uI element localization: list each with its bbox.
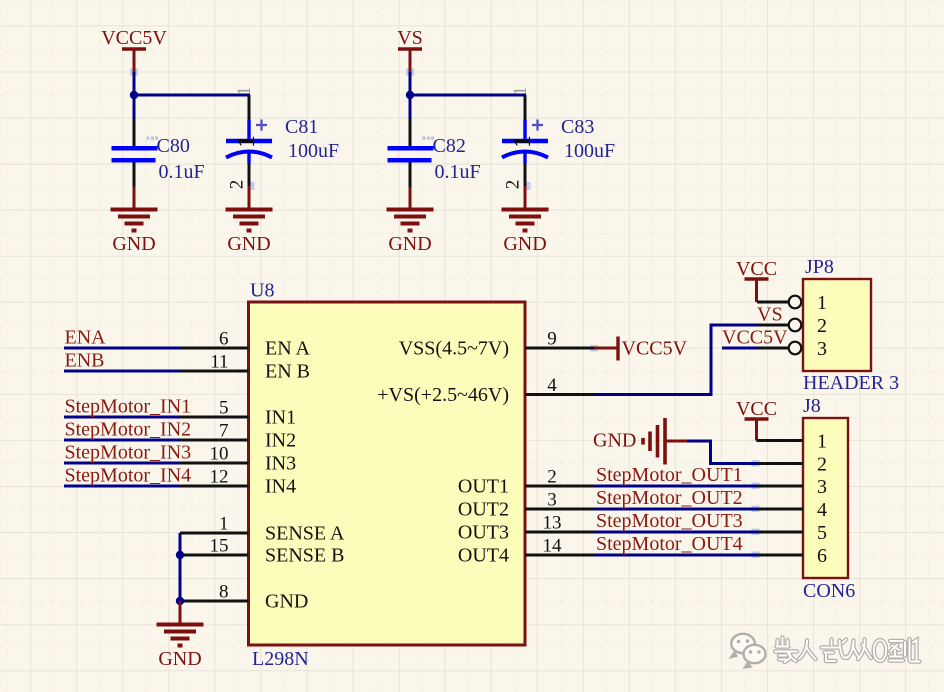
svg-text:14: 14: [543, 536, 563, 557]
pin 2 (JP8): [757, 315, 827, 337]
pin 6 EN A (U8 left): [180, 329, 311, 360]
capacitor C83 (polarized): [502, 95, 615, 189]
svg-text:11: 11: [210, 352, 228, 373]
svg-text:1: 1: [219, 514, 229, 535]
power port VS (top): [397, 27, 423, 72]
svg-text:15: 15: [210, 536, 229, 557]
capacitor C80: [112, 119, 205, 188]
wire to ground symbol: [179, 601, 182, 625]
svg-text:SENSE B: SENSE B: [265, 545, 344, 567]
svg-text:0.1uF: 0.1uF: [159, 161, 205, 183]
svg-text:IN3: IN3: [265, 453, 296, 475]
capacitor C81 (polarized): [226, 95, 339, 189]
wire SENSE A/B to GND vertical: [179, 533, 182, 601]
svg-text:VS: VS: [397, 27, 423, 49]
svg-text:VCC5V: VCC5V: [722, 327, 788, 349]
svg-text:CON6: CON6: [803, 580, 855, 602]
wire C81 to ground: [248, 186, 251, 210]
svg-text:EN B: EN B: [265, 361, 310, 383]
svg-text:GND: GND: [158, 648, 201, 670]
svg-text:1: 1: [510, 136, 536, 148]
svg-text:2: 2: [817, 454, 827, 476]
svg-text:100uF: 100uF: [288, 140, 339, 162]
svg-text:OUT1: OUT1: [458, 476, 509, 498]
power port VCC (J8): [736, 398, 777, 441]
wire C83 to ground: [524, 186, 527, 210]
wire net StepMotor_OUT1: [595, 485, 758, 488]
wire net StepMotor_OUT2: [595, 508, 758, 511]
pin 2 (J8): [757, 454, 827, 476]
svg-text:IN2: IN2: [265, 430, 296, 452]
watermark wechat logo bubbles: [729, 634, 766, 669]
ground GND (power ground bars): [643, 418, 665, 465]
wire +VS to JP8 pin 2: [595, 325, 759, 395]
svg-text:0.1uF: 0.1uF: [435, 161, 481, 183]
pin 4 (J8): [757, 499, 827, 521]
node compile marks: [130, 69, 760, 559]
svg-text:GND: GND: [112, 233, 155, 255]
svg-text:GND: GND: [388, 233, 431, 255]
ground GND under C81: [226, 210, 273, 231]
svg-text:VCC: VCC: [736, 258, 777, 280]
svg-text:1: 1: [817, 431, 827, 453]
svg-text:VCC: VCC: [736, 398, 777, 420]
pin 3 (JP8): [757, 338, 827, 360]
ground GND (bottom left): [157, 625, 204, 646]
wire VS vertical to junction: [409, 72, 412, 119]
svg-text:4: 4: [547, 375, 557, 396]
svg-text:10: 10: [210, 444, 229, 465]
pin 5 IN1 (U8 left): [180, 398, 296, 429]
pin 7 IN2 (U8 left): [180, 421, 296, 452]
svg-text:3: 3: [547, 490, 557, 511]
svg-text:C80: C80: [157, 135, 190, 157]
pin 5 (J8): [757, 522, 827, 544]
svg-text:U8: U8: [250, 280, 274, 302]
pin 1 (J8): [757, 431, 828, 453]
pin 8 GND (U8 left): [180, 582, 308, 613]
svg-text:5: 5: [817, 522, 827, 544]
svg-text:VCC5V: VCC5V: [101, 27, 167, 49]
svg-text:StepMotor_OUT4: StepMotor_OUT4: [596, 533, 743, 555]
power port VCC5V (pin 9): [595, 337, 688, 361]
svg-text:HEADER 3: HEADER 3: [803, 372, 899, 394]
svg-text:VSS(4.5~7V): VSS(4.5~7V): [399, 338, 509, 360]
svg-text:GND: GND: [503, 233, 546, 255]
wire C82 to ground: [409, 187, 412, 210]
svg-text:EN A: EN A: [265, 338, 311, 360]
svg-text:OUT2: OUT2: [458, 499, 509, 521]
svg-text:IN1: IN1: [265, 407, 296, 429]
svg-text:VCC5V: VCC5V: [622, 338, 688, 360]
svg-text:StepMotor_IN3: StepMotor_IN3: [65, 442, 192, 464]
pin 3 (J8): [757, 476, 827, 498]
pin 1 SENSE A (U8 left): [180, 514, 345, 545]
svg-text:OUT4: OUT4: [458, 545, 509, 567]
svg-text:12: 12: [210, 467, 229, 488]
pin 1 (JP8): [757, 292, 827, 314]
svg-text:7: 7: [219, 421, 229, 442]
svg-text:+VS(+2.5~46V): +VS(+2.5~46V): [377, 384, 509, 406]
wire net StepMotor_IN2: [64, 439, 180, 442]
svg-text:2: 2: [817, 315, 827, 337]
svg-text:J8: J8: [803, 395, 821, 417]
wire C80 to ground: [133, 187, 136, 210]
svg-text:2: 2: [227, 180, 248, 190]
op-amp U8 body (L298N driver IC): [249, 280, 526, 671]
svg-text:8: 8: [219, 582, 229, 603]
wire net ENB: [64, 370, 180, 373]
pin 13 OUT3 (U8 right): [458, 513, 595, 544]
pin 15 SENSE B (U8 left): [180, 536, 344, 567]
svg-text:StepMotor_OUT1: StepMotor_OUT1: [596, 464, 743, 486]
svg-text:6: 6: [817, 545, 827, 567]
watermark text 嵌入式从0到1: [775, 638, 920, 663]
svg-text:StepMotor_OUT3: StepMotor_OUT3: [596, 510, 743, 532]
node junction SENSE B: [176, 551, 184, 559]
svg-text:StepMotor_OUT2: StepMotor_OUT2: [596, 487, 743, 509]
svg-text:1: 1: [817, 292, 827, 314]
svg-text:ENA: ENA: [65, 327, 107, 349]
pin 2 OUT1 (U8 right): [458, 467, 595, 498]
power port VCC5V (top): [101, 27, 167, 72]
svg-text:C82: C82: [433, 135, 466, 157]
wire net StepMotor_OUT3: [595, 531, 758, 534]
svg-text:OUT3: OUT3: [458, 522, 509, 544]
pin 11 EN B (U8 left): [180, 352, 310, 383]
svg-text:3: 3: [817, 338, 827, 360]
svg-text:13: 13: [543, 513, 562, 534]
svg-text:GND: GND: [593, 430, 636, 452]
ground GND under C80: [111, 210, 158, 231]
svg-text:JP8: JP8: [805, 256, 834, 278]
wire net ENA: [64, 347, 180, 350]
pin 12 IN4 (U8 left): [180, 467, 296, 498]
ground GND under C83: [502, 210, 549, 231]
svg-text:5: 5: [219, 398, 229, 419]
connector JP8 HEADER 3: [803, 256, 899, 394]
capacitor C82: [388, 119, 481, 188]
power port VCC (JP8): [736, 258, 777, 302]
svg-text:GND: GND: [265, 591, 308, 613]
node junction GND pin 8: [176, 597, 184, 605]
svg-text:C83: C83: [561, 116, 594, 138]
svg-text:IN4: IN4: [265, 476, 296, 498]
wire VCC5V horizontal to C81: [134, 94, 250, 97]
svg-text:6: 6: [219, 329, 229, 350]
svg-text:L298N: L298N: [252, 648, 309, 670]
svg-text:StepMotor_IN2: StepMotor_IN2: [65, 419, 192, 441]
wire net VCC5V to JP8 pin 3: [722, 347, 758, 350]
svg-text:StepMotor_IN1: StepMotor_IN1: [65, 396, 192, 418]
svg-text:2: 2: [503, 180, 524, 190]
wire net StepMotor_IN1: [64, 416, 180, 419]
wire net StepMotor_OUT4: [595, 554, 758, 557]
wire net StepMotor_IN4: [64, 485, 180, 488]
pin 10 IN3 (U8 left): [180, 444, 296, 475]
svg-text:3: 3: [817, 476, 827, 498]
wire VS horizontal to C83: [410, 94, 526, 97]
svg-text:2: 2: [547, 467, 557, 488]
svg-text:4: 4: [817, 499, 827, 521]
wire VCC5V vertical to junction: [133, 72, 136, 119]
pin 3 OUT2 (U8 right): [458, 490, 595, 521]
svg-text:9: 9: [547, 329, 557, 350]
node junction VS: [406, 91, 414, 99]
svg-text:1: 1: [234, 136, 260, 148]
svg-text:GND: GND: [227, 233, 270, 255]
pin 6 (J8): [757, 545, 827, 567]
wire net StepMotor_IN3: [64, 462, 180, 465]
pin 14 OUT4 (U8 right): [458, 536, 595, 567]
wire GND to J8 pin 2: [687, 441, 757, 464]
svg-text:C81: C81: [285, 116, 318, 138]
ground GND under C82: [387, 210, 434, 231]
svg-text:StepMotor_IN4: StepMotor_IN4: [65, 465, 192, 487]
connector J8 CON6: [803, 395, 855, 602]
svg-text:ENB: ENB: [65, 350, 105, 372]
pin 9 VSS(4.5~7V) (U8 right): [399, 329, 595, 360]
svg-text:VS: VS: [757, 304, 783, 326]
svg-text:100uF: 100uF: [564, 140, 615, 162]
pin 4 +VS(+2.5~46V) (U8 right): [377, 375, 594, 406]
svg-text:SENSE A: SENSE A: [265, 523, 345, 545]
node junction VCC5V: [130, 91, 138, 99]
